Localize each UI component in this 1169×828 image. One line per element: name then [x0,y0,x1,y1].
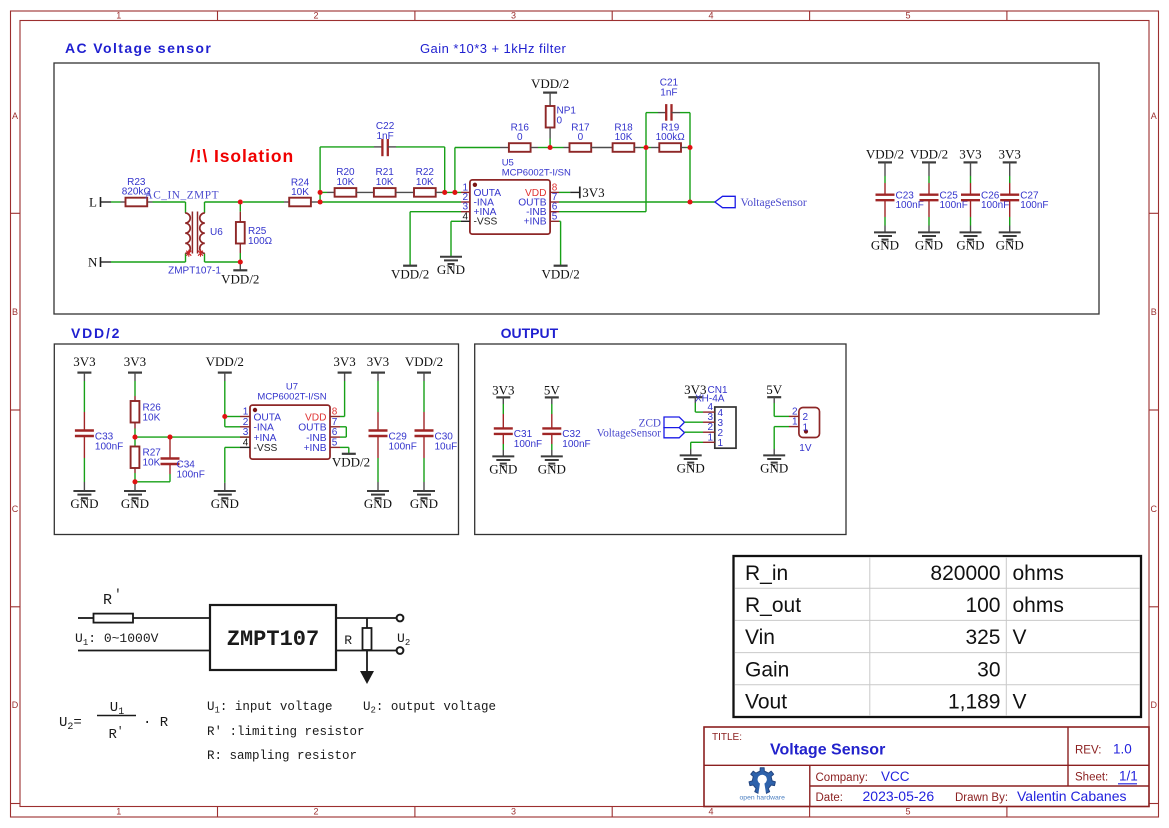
svg-text:3: 3 [511,11,516,21]
svg-text:100nF: 100nF [177,470,205,481]
global label VoltageSensor [715,196,807,209]
wire R24 to node [318,201,321,203]
net label AC_IN_ZMPT [145,190,220,202]
wire R19 left [646,147,659,149]
U7 pin 2 [240,417,274,434]
svg-text:MCP6002T-I/SN: MCP6002T-I/SN [502,168,571,179]
svg-text:ohms: ohms [1013,562,1064,585]
wire VDD/2 to U7 OUTA [225,373,240,417]
svg-text:AC Voltage sensor: AC Voltage sensor [65,40,212,56]
logo open hardware [740,768,786,802]
U5 pin 6 [526,202,559,218]
node divider bottom [132,479,137,484]
wire R22 to nodes [436,191,461,193]
wire U7 OUTB to -INB loop [340,427,346,437]
svg-text:R: R [103,592,112,609]
svg-text:VDD/2: VDD/2 [405,354,443,369]
svg-text:VDD/2: VDD/2 [866,147,904,162]
wire N to transformer [111,261,186,263]
svg-text:5V: 5V [544,382,561,397]
VDD/2 section box [54,344,458,535]
ground below C30 [410,491,438,511]
section title AC Voltage sensor [65,40,212,56]
svg-text:': ' [114,587,122,602]
power VDD/2 above NP1 [531,76,569,93]
ground below CN1 [677,455,705,475]
svg-text:B: B [12,307,18,317]
wire C34 bottom to divider bottom [135,481,170,483]
svg-text:R: R [344,633,352,648]
figure bottom input wire [78,650,210,652]
wire divider to C34 and U7 +INA [135,436,250,438]
svg-text:D: D [12,700,19,710]
U7 pin 7 [298,417,340,434]
svg-text:100nF: 100nF [514,439,542,450]
U5 pin 8 [525,182,559,198]
svg-text:ZMPT107-1: ZMPT107-1 [168,266,221,277]
node U7 pin1 junction [222,414,227,419]
svg-text:4: 4 [708,11,713,21]
svg-text:5: 5 [552,211,558,222]
svg-text:C: C [12,504,19,514]
svg-text:GND: GND [211,496,239,511]
ground below R27 [121,482,149,511]
node feedback left upper [318,190,323,195]
CN1 pin 1 [703,432,724,449]
svg-text:Date:: Date: [816,792,844,804]
svg-text:1: 1 [116,807,121,817]
capacitor C33 [75,373,123,491]
node C22 right junction [442,190,447,195]
wire 5V to connector pin2 [774,397,789,416]
wire -INB feedback [559,148,646,212]
wire R19 right [681,147,690,149]
op-amp U7 MCP6002T-I/SN [250,382,330,460]
node feedback left lower [318,199,323,204]
power 3V3 above C27 [999,147,1021,163]
svg-text:C: C [1150,504,1157,514]
svg-text:100nF: 100nF [1020,200,1048,211]
wire vertical C21 right to output [689,113,691,202]
title block [704,727,1149,807]
port L [89,195,111,210]
svg-text:R_in: R_in [745,562,788,585]
figure legend R-prime [207,725,365,739]
power VDD/2 below U7 pin5 [332,454,370,470]
svg-text:1V: 1V [799,443,812,454]
capacitor C30 [415,373,458,491]
node R19 right junction [687,145,692,150]
figure formula U2 equals U1 over R-prime times R [59,700,169,743]
svg-text:VDD/2: VDD/2 [541,267,579,282]
resistor R27 [131,437,162,482]
svg-text:Vout: Vout [745,691,787,714]
svg-text:100nF: 100nF [896,200,924,211]
svg-text:Drawn By:: Drawn By: [955,792,1008,804]
wire connector pin1 to GND [774,427,789,456]
svg-text:GND: GND [410,496,438,511]
svg-text:100: 100 [965,594,1000,617]
wire R16 to NP1 node [531,147,553,149]
global label ZCD [639,417,685,429]
ground below U7 [211,491,239,511]
svg-text:100nF: 100nF [389,442,417,453]
wire -INA from divider [320,201,461,203]
wire U7 +INB to VDD/2 [340,447,349,453]
node secondary bottom junction [238,259,243,264]
CN1 pin 3 [703,412,724,429]
svg-text:ZMPT107: ZMPT107 [227,627,319,652]
wire R20-R21 [356,191,374,193]
wire CN1 pin1 to GND [691,442,703,455]
svg-text:100nF: 100nF [940,200,968,211]
U7 pin 8 [305,407,340,424]
power 3V3 above C29 [367,354,389,373]
svg-text:VoltageSensor: VoltageSensor [597,428,662,440]
svg-text:AC_IN_ZMPT: AC_IN_ZMPT [145,190,220,202]
svg-text:1: 1 [707,432,713,443]
svg-text:MCP6002T-I/SN: MCP6002T-I/SN [257,392,326,403]
svg-text:10K: 10K [143,413,161,424]
svg-text:L: L [89,195,97,210]
wire row1 left [455,147,509,149]
ground below C33 [70,491,98,511]
power 3V3 above C26 [959,147,981,163]
resistor NP1 [546,93,577,148]
power 3V3 above R26 [124,354,146,373]
U7 pin 4 [240,437,277,454]
figure ground arrow [360,671,374,684]
svg-text:Gain *10*3 + 1kHz filter: Gain *10*3 + 1kHz filter [420,41,567,56]
svg-text:VDD/2: VDD/2 [71,325,121,341]
svg-text:VDD/2: VDD/2 [332,455,370,470]
ground below 1V connector [760,455,788,475]
svg-text:10uF: 10uF [435,442,458,453]
global label VoltageSensor output [597,428,685,440]
node NP1 bottom [548,145,553,150]
wire ZCD to CN1 pin3 [685,421,704,423]
svg-text:2: 2 [313,807,318,817]
U7 pin 5 [304,437,340,454]
svg-text:3V3: 3V3 [999,147,1021,162]
svg-text:A: A [1151,111,1157,121]
warning text Isolation [190,146,294,166]
svg-text:GND: GND [915,237,943,252]
wire R21-R22 [396,191,414,193]
svg-text:1: 1 [803,422,809,433]
ground below C26 [956,232,984,252]
power VDD/2 above C25 [910,147,948,163]
svg-text:VDD/2: VDD/2 [221,271,259,286]
capacitor C25 [920,162,968,232]
power VDD/2 below U5 pin3 [391,266,429,282]
svg-text:3: 3 [511,807,516,817]
svg-text:10K: 10K [416,177,434,188]
wire R17-R18 [591,147,612,149]
U7 pin 6 [306,427,340,444]
svg-text:2023-05-26: 2023-05-26 [863,788,935,804]
svg-text:10K: 10K [291,187,309,198]
capacitor C26 [961,162,1009,232]
parameters table [734,556,1142,717]
ground below C31 [489,456,517,476]
resistor R24 [284,177,318,206]
svg-text:TITLE:: TITLE: [712,732,742,743]
figure sampling resistor R [344,628,371,650]
svg-text:VDD/2: VDD/2 [206,354,244,369]
svg-text:30: 30 [977,658,1000,681]
ground below C23 [871,232,899,252]
svg-text:Company:: Company: [816,772,868,784]
power 3V3 at U5 VDD [559,185,605,200]
figure output wires [336,618,397,671]
1V connector pin 1 [789,417,809,434]
resistor R26 [131,373,162,438]
svg-text:10K: 10K [615,132,633,143]
node R18-R19 junction [643,145,648,150]
figure legend U2 [363,700,496,716]
connector 1V [799,408,820,455]
svg-text:OUTPUT: OUTPUT [501,325,559,341]
figure label U1 input range [75,631,159,648]
capacitor C32 [542,397,590,456]
svg-text:1/1: 1/1 [1119,769,1138,784]
svg-text:R' :limiting resistor: R' :limiting resistor [207,725,365,739]
svg-text:R: sampling resistor: R: sampling resistor [207,749,357,763]
section title OUTPUT [501,325,559,341]
U5 pin 1 [461,182,501,198]
svg-text:V: V [1013,626,1027,649]
svg-text:GND: GND [364,496,392,511]
wire U7 VDD to 3V3 [340,373,345,417]
power 3V3 above C31 [492,382,514,397]
svg-text:4: 4 [462,211,468,222]
wire 3V3 to CN1 pin4 [695,397,703,412]
power VDD/2 above U7 [206,354,244,373]
svg-text:VoltageSensor: VoltageSensor [741,197,807,209]
power 3V3 above CN1 [684,382,706,397]
svg-text:ohms: ohms [1013,594,1064,617]
svg-text:1,189: 1,189 [948,691,1001,714]
wire R25 to R24 [243,201,284,203]
svg-text:GND: GND [677,460,705,475]
svg-text:+INB: +INB [524,217,547,228]
ground below U5 [437,257,465,277]
resistor R19 [656,122,686,152]
svg-text:VDD/2: VDD/2 [910,147,948,162]
svg-text:D: D [1150,700,1157,710]
node secondary top junction [238,199,243,204]
U7 pin 3 [240,427,277,444]
wire L to R23 [111,201,121,203]
svg-text:GND: GND [760,460,788,475]
svg-text:4: 4 [708,807,713,817]
wire VDD/2 to U7 -INA [225,417,240,427]
svg-text:100Ω: 100Ω [248,236,273,247]
svg-text:Voltage Sensor: Voltage Sensor [770,742,885,759]
svg-text:VCC: VCC [881,769,910,784]
resistor R18 [613,122,635,152]
svg-text:GND: GND [437,262,465,277]
figure label U2 [397,631,410,648]
svg-text:1nF: 1nF [660,87,677,98]
svg-text:820000: 820000 [930,562,1000,585]
OUTPUT section box [475,344,846,535]
wire +INA to VDD/2 [410,212,461,266]
op-amp U5 MCP6002T-I/SN [470,158,571,235]
power VDD/2 below R25 [221,262,259,286]
svg-text:GND: GND [956,237,984,252]
CN1 pin 4 [703,402,724,419]
svg-text:5V: 5V [766,382,783,397]
U7 pin 1 [240,407,281,424]
CN1 pin 2 [703,422,724,439]
power VDD/2 above C23 [866,147,904,163]
svg-text:N: N [88,254,98,269]
svg-text:· R: · R [143,715,169,731]
svg-text:Valentin Cabanes: Valentin Cabanes [1017,788,1126,804]
svg-text:10K: 10K [143,458,161,469]
svg-text:U1: 0~1000V: U1: 0~1000V [75,631,159,648]
capacitor C27 [1000,162,1048,232]
U5 pin 3 [461,202,497,218]
svg-text:1: 1 [116,11,121,21]
wire row2 start [320,191,335,193]
ground below C32 [538,456,566,476]
svg-text:REV:: REV: [1075,745,1101,757]
svg-text:100nF: 100nF [562,439,590,450]
wire vertical R16 left [454,148,456,193]
capacitor C22 [320,121,445,156]
svg-text:0: 0 [578,132,584,143]
resistor R22 [414,167,436,197]
wire NP1 to R17 [553,147,570,149]
node output junction [687,199,692,204]
svg-text:5: 5 [905,11,910,21]
svg-text:2: 2 [313,11,318,21]
svg-text:open hardware: open hardware [740,795,786,802]
wire -VSS to GND [451,221,461,256]
figure label R-prime [103,587,122,609]
wire vertical C22 right [444,147,446,193]
svg-text:5: 5 [332,437,338,448]
figure legend U1 [207,700,332,716]
U5 pin 2 [461,192,494,208]
ground below C25 [915,232,943,252]
svg-text:A: A [12,111,18,121]
wire secondary bottom [205,261,241,263]
svg-text:+INB: +INB [304,443,327,454]
1V connector pin 2 [789,406,809,423]
capacitor C21 [646,78,690,121]
resistor R25 [236,202,273,262]
svg-text:1: 1 [718,438,724,449]
ground below C29 [364,491,392,511]
svg-text:VDD/2: VDD/2 [391,267,429,282]
svg-text:Gain: Gain [745,658,789,681]
svg-text:/!\ Isolation: /!\ Isolation [190,146,294,166]
svg-text:U2: output voltage: U2: output voltage [363,700,496,716]
wire VoltageSensor to CN1 pin2 [685,431,704,433]
svg-text:B: B [1151,307,1157,317]
svg-text:GND: GND [538,461,566,476]
wire +INB to VDD/2 [559,221,561,265]
capacitor C23 [876,162,924,232]
transformer U6 ZMPT107-1 [168,202,223,277]
resistor R16 [509,122,531,152]
svg-text:10K: 10K [376,177,394,188]
resistor R23 [121,177,153,207]
node R16 branch junction [452,190,457,195]
resistor R17 [570,122,592,152]
svg-text:3V3: 3V3 [582,185,604,200]
capacitor C31 [494,397,542,456]
resistor R21 [374,167,396,197]
svg-text:3V3: 3V3 [367,354,389,369]
figure ZMPT107 block [210,605,336,670]
node divider mid [132,435,137,440]
svg-text:100nF: 100nF [95,442,123,453]
svg-text:3V3: 3V3 [73,354,95,369]
svg-text:GND: GND [70,496,98,511]
svg-text:10K: 10K [337,177,355,188]
capacitor C29 [369,373,417,491]
svg-text:3V3: 3V3 [124,354,146,369]
ground below C27 [996,232,1024,252]
svg-text:0: 0 [557,115,563,126]
svg-text:4: 4 [243,437,249,448]
port N [88,254,111,269]
wire vertical C22 left [319,147,321,202]
section title VDD/2 [71,325,121,341]
svg-text:5: 5 [905,807,910,817]
power VDD/2 below U5 pin5 [541,266,579,282]
svg-text:GND: GND [871,237,899,252]
figure legend R [207,749,357,763]
svg-text:325: 325 [965,626,1000,649]
wire R23 to transformer primary [153,201,186,203]
wire U7 -VSS to GND [225,447,240,491]
svg-text:V: V [1013,691,1027,714]
svg-text:U1: input voltage: U1: input voltage [207,700,332,716]
resistor R20 [335,167,357,197]
svg-text:1: 1 [792,417,798,428]
wire secondary top [205,201,241,203]
svg-text:-VSS: -VSS [474,217,498,228]
connector CN1 XH-4A [695,385,736,448]
AC Voltage sensor section box [54,63,1099,314]
U5 pin 7 [518,192,559,208]
figure output terminals [397,615,404,654]
U5 pin 5 [524,211,559,227]
figure limiting resistor [78,614,210,623]
capacitor C34 [161,437,205,482]
wire R18 to node [634,147,646,149]
wire OUTB to output [559,201,715,203]
svg-text:1nF: 1nF [376,131,393,142]
svg-text:GND: GND [121,496,149,511]
svg-text:100kΩ: 100kΩ [656,132,686,143]
svg-text:1.0: 1.0 [1113,742,1132,757]
svg-text:3V3: 3V3 [333,354,355,369]
svg-text:3V3: 3V3 [492,382,514,397]
power VDD/2 above C30 [405,354,443,373]
svg-text:GND: GND [489,461,517,476]
svg-text:-VSS: -VSS [254,443,278,454]
svg-text:U6: U6 [210,227,223,238]
svg-text:Vin: Vin [745,626,775,649]
node C34 top [167,435,172,440]
